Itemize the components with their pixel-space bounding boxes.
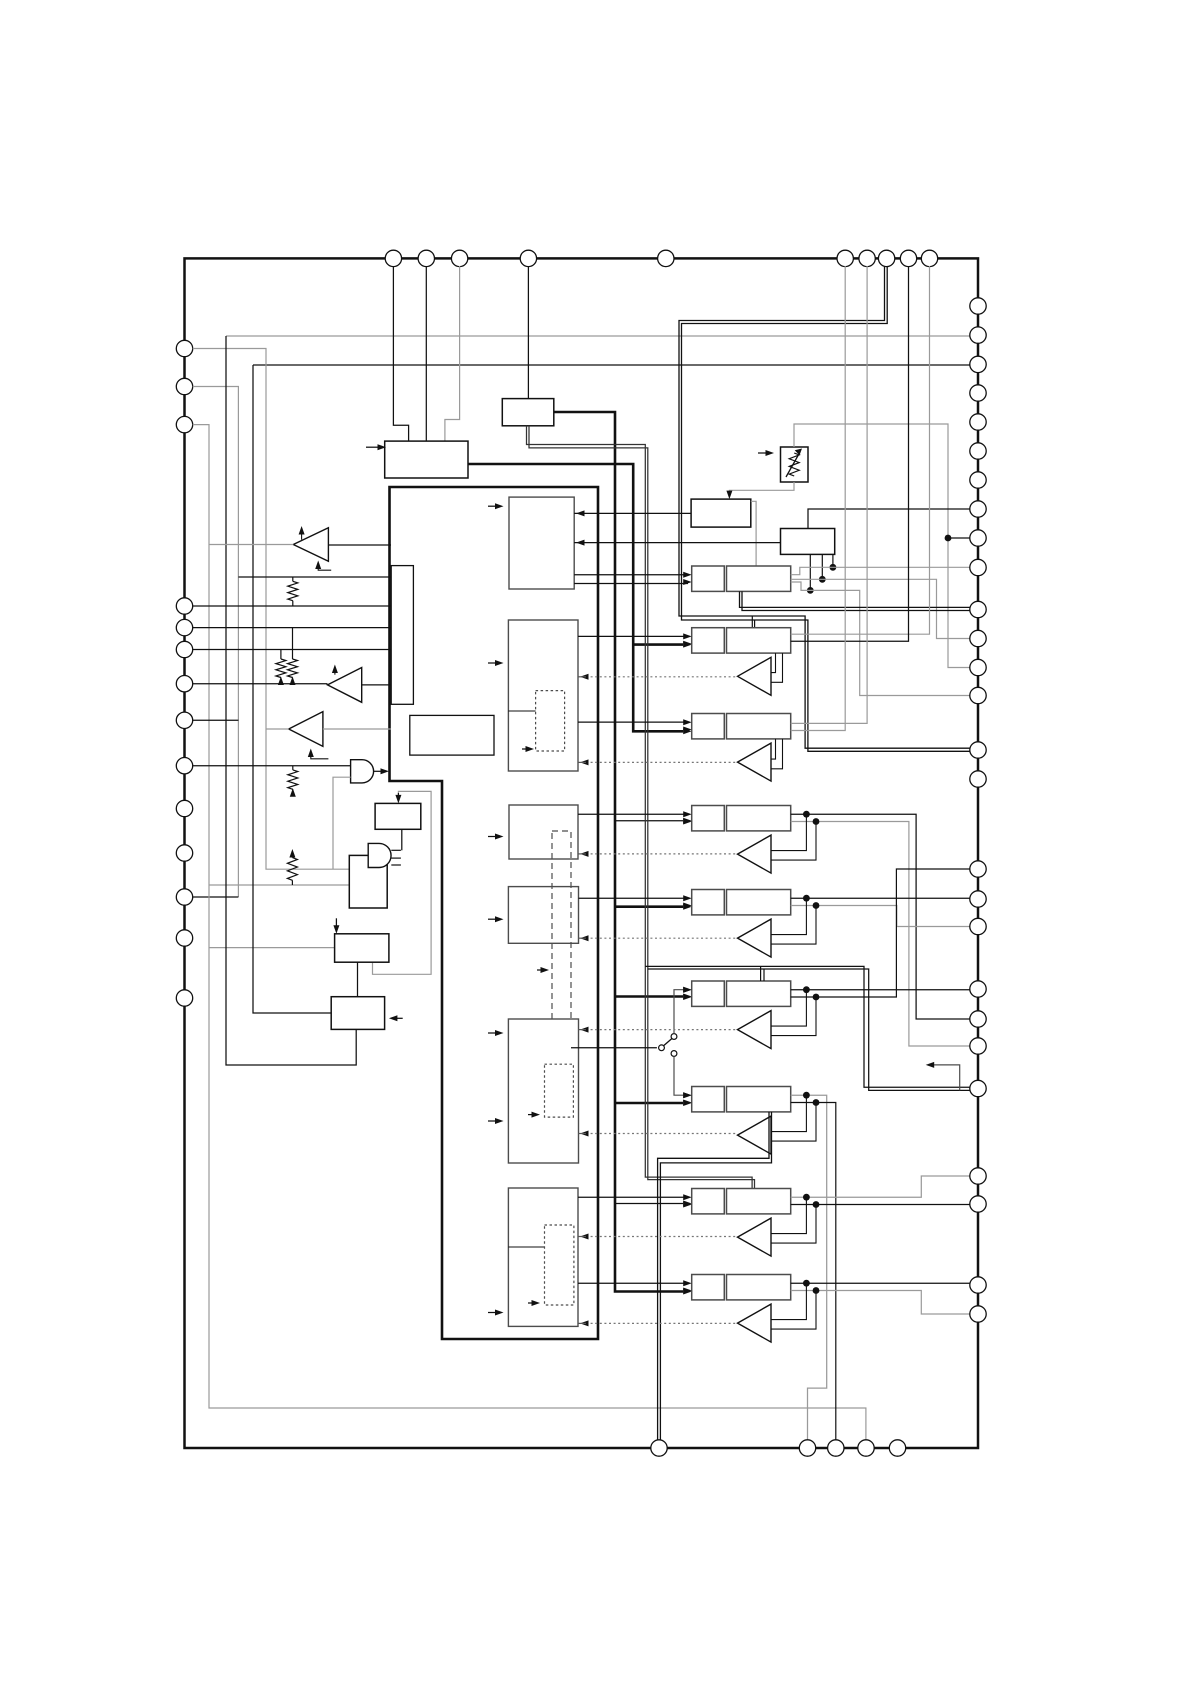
wire left pin 627 to DSP: [193, 627, 391, 629]
row4 DAC block: [692, 806, 725, 831]
wire S4 to row5 a: [579, 897, 689, 899]
wire: vertical x226 (from net 336) to block B return: [226, 336, 356, 1065]
row6 out A wire: [791, 989, 970, 991]
junction dot B4a: [807, 587, 814, 594]
dotted feedback from row8 amp into DSP: [586, 1236, 737, 1238]
V1 varicap symbol: [789, 453, 799, 476]
row1 DAC block: [692, 566, 725, 591]
row5 junction dot A: [803, 895, 810, 902]
dotted feedback from row7 amp into DSP: [586, 1133, 737, 1135]
arrow into S5 left (1): [488, 1032, 498, 1034]
row5 junction dot B: [813, 902, 820, 909]
switch SW1 lower contact: [671, 1051, 677, 1057]
wire left pin 649 to DSP: [193, 649, 391, 651]
crystal X1 (D-shape): [368, 843, 391, 867]
block U1 (top-left controller): [385, 441, 468, 478]
row9 out B wire: [791, 1291, 970, 1315]
bus: thick wire U1 to DAC rows (x633): [468, 464, 683, 731]
pin R3 (right): [970, 356, 986, 372]
S6 dotted window: [545, 1225, 574, 1305]
pin 1 (top): [385, 250, 401, 266]
resistor R1: [292, 577, 294, 581]
row1 filter block: [727, 566, 791, 591]
wire B4 to S1 (arrow left): [574, 542, 780, 544]
row2 input arrow a: [683, 633, 692, 639]
arrow into S1 left: [488, 505, 498, 507]
pin R16 (right): [970, 771, 986, 787]
resistor R3 (on net 765): [292, 766, 294, 770]
row9 input arrow b: [683, 1288, 692, 1294]
arrow into S5 left (2): [488, 1120, 498, 1122]
long dashed window: [552, 831, 571, 1056]
wire gray branch to block Q: [209, 884, 349, 886]
row5 out A wire: [791, 897, 970, 899]
row3 amp input L2: [771, 739, 783, 769]
row6 amp feed L1: [771, 990, 806, 1026]
pin B1 (bottom): [651, 1440, 667, 1456]
pin 9 (top): [900, 250, 916, 266]
pin L3 (left): [176, 416, 192, 432]
row1 bottom pair to pin 609 (line a): [740, 591, 970, 607]
row9 junction dot B: [813, 1287, 820, 1294]
wire pair: top pin 8 bus (line a): [679, 266, 970, 748]
row2 out A to top pin 10: [791, 266, 930, 634]
wire pin1 to block U1 top: [393, 266, 408, 441]
pin B4 (bottom): [858, 1440, 874, 1456]
pin R5 (right): [970, 414, 986, 430]
pin R18 (right): [970, 891, 986, 907]
wire pair: U2 bottom to row8 DAC (line b): [529, 426, 755, 1189]
pin R25 (right): [970, 1196, 986, 1212]
pin B2 (bottom): [799, 1440, 815, 1456]
bus arrowhead row3: [683, 728, 692, 734]
row4 junction dot A: [803, 811, 810, 818]
row3 input arrow b: [683, 727, 692, 733]
row1 out A to right pin 567: [791, 567, 970, 574]
dotted feedback from row3 amp into DSP: [586, 761, 737, 763]
DSP input register (narrow rect): [391, 566, 413, 705]
row7 out B wire: [791, 1103, 836, 1441]
row7 out A wire: [791, 1095, 827, 1440]
pin R21 (right): [970, 1011, 986, 1027]
pin R22 (right): [970, 1038, 986, 1054]
row9 output amp (triangle): [738, 1304, 772, 1342]
row8 output amp (triangle): [738, 1218, 772, 1256]
resistor R2a (on net 649): [280, 650, 282, 660]
wire B3 to S1 (arrow left): [574, 512, 691, 514]
pin L12 (left): [176, 889, 192, 905]
S6 divider: [508, 1246, 544, 1248]
wire S1 to row1 b: [574, 583, 688, 585]
row1 bottom pair to pin 609 (line b): [742, 591, 970, 610]
wire dot to right pin 538: [948, 537, 970, 539]
pin 2 (top): [418, 250, 434, 266]
bus branch arrow into row at y996: [615, 995, 683, 998]
row6 output amp (triangle): [738, 1011, 772, 1049]
row5 out B wire: [791, 906, 970, 927]
row7 bottom pair to bottom pin (line b): [660, 1112, 771, 1440]
wire pair sub-branch into row6 top (line a): [760, 966, 762, 981]
pin L5 (left): [176, 619, 192, 635]
row4 junction dot B: [813, 818, 820, 825]
pin B3 (bottom): [828, 1440, 844, 1456]
pin 6 (top): [837, 250, 853, 266]
row6 junction dot B: [813, 994, 820, 1001]
row4 input arrow b: [683, 819, 692, 825]
pin R27 (right): [970, 1306, 986, 1322]
wire S6 to row8 a: [578, 1196, 688, 1198]
resistor R4 (pull on Q input): [289, 849, 295, 858]
arrow into A top: [335, 918, 337, 927]
row9 amp feed L2: [771, 1291, 816, 1330]
sub-block S4: [508, 887, 578, 944]
pin 5 (top): [658, 250, 674, 266]
bus: thick wire U2 to DAC rows (x615): [554, 412, 683, 1292]
pin 10 (top): [921, 250, 937, 266]
row8 amp feed L1: [771, 1197, 806, 1233]
dotted feedback from row6 amp into DSP: [586, 1029, 737, 1031]
row5 amp feed L1: [771, 898, 806, 934]
row6 DAC block: [692, 981, 725, 1006]
block P (PLL): [375, 803, 421, 829]
wire A3 output to riser x266: [266, 728, 289, 730]
sub-block S5: [508, 1019, 578, 1163]
dotted feedback from row2 amp into DSP: [586, 676, 737, 678]
pin L7 (left): [176, 676, 192, 692]
wire V1 bottom to B3: [729, 482, 794, 493]
row6 out B wire: [791, 869, 970, 997]
pin R12 (right): [970, 630, 986, 646]
wire switch lower to row7 a: [674, 1056, 688, 1095]
wire V1 top to right pins: [794, 424, 970, 668]
switch SW1 lever: [664, 1039, 672, 1046]
row5 input arrow b: [683, 903, 692, 909]
row4 out B wire: [791, 822, 970, 1047]
pin L6 (left): [176, 641, 192, 657]
wire S5 to switch common: [571, 1047, 657, 1049]
A1 adjust arrow (top): [301, 528, 303, 540]
op-amp A2 (points left): [328, 668, 362, 703]
wire pin2 to block U1 top: [425, 266, 427, 441]
arrow into S6 left: [488, 1312, 498, 1314]
pin R2 (right): [970, 327, 986, 343]
wire pin4 to block U2 top: [527, 266, 529, 399]
pin L2 (left): [176, 378, 192, 394]
junction dot B4b: [819, 576, 826, 583]
row7 filter block: [727, 1087, 791, 1112]
sub-block S3: [509, 805, 578, 859]
row8 out A wire: [791, 1176, 970, 1197]
pin R19 (right): [970, 918, 986, 934]
wire pair sub-branch into row6 top (line b): [763, 969, 765, 981]
row2 out B to top pin 9: [791, 266, 909, 641]
bus branch arrow (thin) into row at y1203: [615, 1203, 683, 1205]
arrow input into U1 left: [366, 446, 381, 448]
block B4 (interface latch): [781, 529, 835, 555]
pin R15 (right): [970, 742, 986, 758]
pin L1 (left): [176, 340, 192, 356]
wire A1 output to gray trunk: [209, 544, 293, 546]
junction dot on V1 net: [945, 535, 952, 542]
pin 3 (top): [451, 250, 467, 266]
row2 output amp (triangle): [738, 657, 772, 695]
op-amp A1 (buffer, points left): [293, 528, 328, 562]
dotted feedback from row9 amp into DSP: [586, 1322, 737, 1324]
row7 amp feed L1: [771, 1095, 806, 1131]
bus branch arrow into row at y1103: [615, 1102, 683, 1105]
wire pin3 to block U1 top: [445, 266, 460, 441]
arrow into S2 left: [488, 662, 498, 664]
wire pair branch to pin 1088 (line a): [645, 966, 970, 1087]
A2 adjust arrow (top): [334, 667, 336, 675]
dotted feedback from row4 amp into DSP: [586, 853, 737, 855]
pin R6 (right): [970, 443, 986, 459]
row3 out A to top pin 7: [791, 266, 867, 723]
row2 DAC block: [692, 628, 725, 653]
pin R20 (right): [970, 981, 986, 997]
pin R24 (right): [970, 1168, 986, 1184]
row2 filter block: [727, 628, 791, 653]
S2 divider: [508, 710, 535, 712]
wire left pin 765 to AND gate input: [193, 765, 351, 767]
row7 output amp (triangle): [738, 1116, 772, 1154]
wire gray branch to block A: [209, 947, 335, 949]
wire pair: U2 bottom to row8 DAC (line a): [527, 426, 753, 1189]
arrow into S6 window: [528, 1302, 534, 1304]
pin L4 (left): [176, 598, 192, 614]
resistor R2b (on net 627): [292, 628, 294, 659]
wire left pin 897 tap: [193, 896, 239, 898]
row4 input arrow a: [683, 811, 692, 817]
wire: gray net from corner (226,336) to right pin 335: [226, 335, 978, 337]
row7 bottom pair to bottom pin (line a): [658, 1112, 769, 1440]
arrow into B right: [392, 1017, 403, 1019]
arrow into S5 window: [528, 1114, 534, 1116]
feedback wire A to P: [373, 791, 432, 974]
row5 filter block: [727, 890, 791, 915]
row6 input arrow b: [683, 994, 692, 1000]
A3 adjust mark (bottom): [311, 751, 329, 759]
sub-block S6: [508, 1188, 578, 1326]
IC outer boundary frame: [185, 258, 979, 1448]
row5 amp feed L2: [771, 906, 816, 945]
row4 output amp (triangle): [738, 835, 772, 873]
wire left pin 424 gray trunk x209: [193, 425, 866, 1448]
X1 stub 3: [391, 864, 401, 866]
pin L14 (left): [176, 990, 192, 1006]
bus branch arrow into row2: [633, 643, 683, 646]
dotted feedback from row5 amp into DSP: [586, 937, 737, 939]
row5 input arrow a: [683, 895, 692, 901]
row1 input arrow a: [683, 572, 692, 578]
bus branch arrow into row at y906: [615, 905, 683, 908]
wire A to B: [357, 962, 359, 997]
wire A2 input from DSP: [362, 684, 391, 686]
pin R23 (right): [970, 1080, 986, 1096]
row9 junction dot A: [803, 1280, 810, 1287]
pin L10 (left): [176, 800, 192, 816]
G1 output arrow into DSP: [374, 770, 383, 772]
row3 filter block: [727, 714, 791, 739]
wire right pin 509 to B4 top: [808, 509, 970, 529]
wire left pin 606 to DSP: [193, 605, 391, 607]
row7 DAC block: [692, 1087, 725, 1112]
wire left pin 348 to vertical riser: [193, 349, 350, 870]
row8 junction dot B: [813, 1201, 820, 1208]
wire S2 to row3 a: [578, 721, 688, 723]
wire left pin 386 to vertical riser x238: [193, 387, 239, 898]
wire S2 to row2 a: [578, 635, 688, 637]
row8 filter block: [727, 1189, 791, 1214]
wire A1 input from DSP: [328, 544, 391, 546]
wire S1 to row1 a: [574, 574, 688, 576]
row4 filter block: [727, 806, 791, 831]
sub-block S1: [509, 497, 574, 589]
row9 input arrow a: [683, 1280, 692, 1286]
pin R17 (right): [970, 861, 986, 877]
wire resistor R1 top rail: [238, 576, 391, 578]
row2 amp input L1: [771, 653, 776, 673]
X1 stub 2: [391, 857, 401, 859]
row8 junction dot A: [803, 1194, 810, 1201]
pin R8 (right): [970, 501, 986, 517]
row8 DAC block: [692, 1189, 725, 1214]
wire P bottom to X1: [401, 829, 403, 850]
row3 input arrow a: [683, 719, 692, 725]
row3 out B to top pin 6: [791, 266, 846, 731]
switch SW1 common contact: [659, 1045, 665, 1051]
central signal-processor block (thick L-shaped outline): [390, 487, 599, 1339]
switch SW1 upper contact: [671, 1034, 677, 1040]
arrow into S2 window: [522, 748, 528, 750]
row7 amp feed L2: [771, 1103, 816, 1142]
arrow into P top: [397, 793, 399, 797]
row7 junction dot B: [813, 1099, 820, 1106]
bus branch arrow (thin) into row at y820: [615, 820, 683, 822]
pin R26 (right): [970, 1277, 986, 1293]
row9 DAC block: [692, 1275, 725, 1300]
op-amp A3 (points left): [289, 712, 323, 747]
row6 amp feed L2: [771, 997, 816, 1036]
pin 4 (top): [520, 250, 536, 266]
junction dot B4c: [830, 564, 837, 571]
pin B5 (bottom): [889, 1440, 905, 1456]
block B (counter): [331, 997, 384, 1030]
row8 out B wire: [791, 1204, 970, 1206]
row6 filter block: [727, 981, 791, 1006]
wire: vertical x253 (from net 365) to block B input: [253, 365, 331, 1013]
wire left pin 720 tap into x238: [193, 719, 239, 721]
row6 input arrow a: [683, 987, 692, 993]
sub-block S2: [508, 620, 578, 771]
block B3 (divider): [691, 499, 751, 527]
row8 input arrow b: [683, 1202, 692, 1208]
pin R9 (right): [970, 530, 986, 546]
row4 amp feed L2: [771, 822, 816, 861]
DSP coefficient rect: [410, 715, 494, 755]
row5 DAC block: [692, 890, 725, 915]
row7 input arrow a: [683, 1092, 692, 1098]
block A (divider): [335, 934, 389, 962]
block U2 (clock block): [502, 399, 554, 426]
row9 amp feed L1: [771, 1283, 806, 1319]
row9 out A wire: [791, 1282, 970, 1284]
pin R7 (right): [970, 472, 986, 488]
row4 out A wire: [791, 814, 970, 1019]
wire left pin 683 to op-amp A2 output: [193, 683, 328, 685]
row4 amp feed L1: [771, 814, 806, 850]
wire pair branch into row2 DAC top (line b): [754, 620, 756, 628]
block Q (oscillator): [349, 855, 387, 908]
bus arrowhead row9: [683, 1289, 692, 1295]
pin 8 (top): [878, 250, 894, 266]
B4 stub a: [809, 554, 811, 590]
row1 out M to right pin 638: [791, 579, 970, 638]
pin L13 (left): [176, 930, 192, 946]
S2 dotted window: [536, 691, 565, 751]
row7 junction dot A: [803, 1092, 810, 1099]
row2 amp input L2: [771, 653, 783, 682]
row2 input arrow b: [683, 641, 692, 647]
X1 stub 1: [391, 849, 401, 851]
wire pair branch to pin 1088 (line b): [648, 969, 970, 1090]
G1 lower input riser: [333, 777, 351, 869]
B4 stub b: [821, 554, 823, 579]
pin R4 (right): [970, 385, 986, 401]
pin L9 (left): [176, 758, 192, 774]
row5 output amp (triangle): [738, 919, 772, 957]
row1 input arrow b: [683, 579, 692, 585]
row9 filter block: [727, 1275, 791, 1300]
arrow into V1 left: [758, 452, 768, 454]
pin R13 (right): [970, 659, 986, 675]
wire S3 to row4 a: [578, 813, 688, 815]
S5 dotted window: [545, 1064, 574, 1117]
row7 input arrow b: [683, 1100, 692, 1106]
pin R14 (right): [970, 687, 986, 703]
pin L8 (left): [176, 712, 192, 728]
wire: black net from corner (253,365) to right pin 364: [253, 364, 978, 366]
wire B3 right to row1 DAC top: [751, 501, 756, 566]
row8 amp feed L2: [771, 1205, 816, 1244]
row8 input arrow a: [683, 1194, 692, 1200]
mute arrow branch: [932, 1065, 960, 1091]
wire switch upper to row6 a: [674, 990, 688, 1034]
pin L11 (left): [176, 845, 192, 861]
pin 7 (top): [859, 250, 875, 266]
wire A3 input from DSP: [323, 728, 391, 730]
row3 DAC block: [692, 714, 725, 739]
AND gate G1: [351, 760, 374, 783]
pin R11 (right): [970, 601, 986, 617]
block V1 (VCO w/ varicap): [781, 447, 809, 482]
wire pair branch into row2 DAC top (line a): [751, 616, 753, 628]
wire pair: top pin 8 bus (line b): [682, 266, 970, 751]
arrow into S3 left: [488, 836, 498, 838]
arrow into dashed window: [537, 969, 543, 971]
wire S6 to row9 a: [578, 1282, 688, 1284]
row3 amp input L1: [771, 739, 776, 759]
row3 output amp (triangle): [738, 743, 772, 781]
pin R10 (right): [970, 559, 986, 575]
B4 stub c: [832, 554, 834, 567]
row1 out B to right pin 695: [791, 582, 970, 696]
row6 junction dot A: [803, 986, 810, 993]
arrow into S4 left: [488, 918, 498, 920]
A1 adjust mark (bottom): [318, 563, 331, 571]
pin R1 (right): [970, 298, 986, 314]
